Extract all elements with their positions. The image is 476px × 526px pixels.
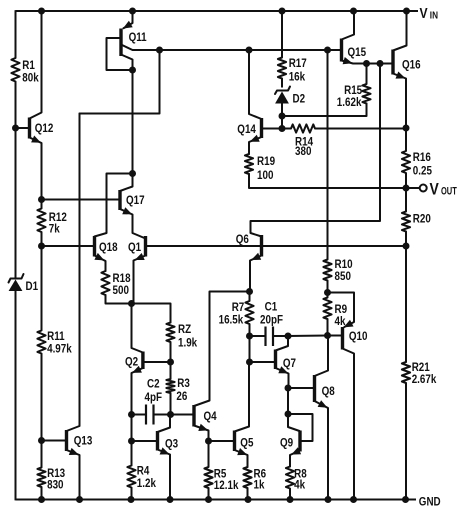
node Q3 collector junction <box>167 411 174 418</box>
wire R17 top lead <box>281 11 283 58</box>
svg-text:R4: R4 <box>137 465 150 478</box>
node junction x380 y63 <box>377 60 384 67</box>
resistor R1 <box>11 58 19 82</box>
node Q6 emitter junction <box>246 288 253 295</box>
label R15 value <box>337 84 362 109</box>
wire R20 top lead <box>405 188 407 212</box>
svg-text:D2: D2 <box>293 93 306 106</box>
resistor R21 <box>402 362 410 383</box>
resistor R6 <box>243 467 251 488</box>
node GND junction R6 <box>245 496 252 503</box>
wire R19 bottom to VOUT node <box>249 174 406 188</box>
wire VIN top rail <box>16 10 419 12</box>
label Q16 <box>402 59 421 72</box>
wire Q3 emitter <box>158 450 171 500</box>
wire R4 top lead <box>131 441 133 466</box>
svg-text:R16: R16 <box>413 151 431 164</box>
wire Q3 base line <box>132 440 158 442</box>
wire Q5 emitter <box>235 450 248 467</box>
transistor Q2 <box>141 352 144 370</box>
node Q18 base junction <box>38 243 45 250</box>
arrow Q16 emitter <box>396 72 406 79</box>
wire Q6 emitter <box>250 256 262 292</box>
svg-text:Q13: Q13 <box>74 435 93 448</box>
wire VOUT stub <box>406 187 420 189</box>
node feedback junction <box>403 243 410 250</box>
resistor R16 <box>402 151 410 173</box>
node Q2 base junction <box>167 359 174 366</box>
svg-text:850: 850 <box>335 270 351 283</box>
wire Q12 collector <box>30 11 42 119</box>
wire Q8 base line <box>288 387 315 389</box>
node VOUT junction <box>403 185 410 192</box>
wire Q15 emitter to Q16 base <box>367 63 394 65</box>
svg-text:4pF: 4pF <box>145 391 163 404</box>
label R14 value <box>295 136 314 159</box>
wire Q7 emitter <box>276 368 289 388</box>
svg-text:R3: R3 <box>177 377 190 390</box>
wire Q14 emitter <box>249 137 262 154</box>
label R19 value <box>257 155 275 182</box>
node top rail junction Q16 <box>403 8 410 15</box>
label R4 value <box>137 465 157 491</box>
transistor Q15 <box>340 39 343 62</box>
svg-text:GND: GND <box>419 496 441 509</box>
svg-text:R7: R7 <box>232 301 245 314</box>
wire Q13 collector <box>67 114 80 432</box>
svg-text:1k: 1k <box>254 479 266 492</box>
node R16 top junction <box>403 125 410 132</box>
resistor R3 <box>166 379 174 393</box>
wire D1 to GND rail <box>15 291 17 500</box>
label RZ value <box>178 323 198 350</box>
diode D2 zener <box>275 87 290 129</box>
node Q3 base junction <box>128 438 135 445</box>
wire Q9 collector <box>288 414 300 431</box>
wire Q2 collector <box>132 304 143 353</box>
svg-text:Q12: Q12 <box>35 122 54 135</box>
label Q13 <box>74 435 93 448</box>
label R3 value <box>176 377 189 403</box>
wire R7 bottom lead <box>249 324 251 336</box>
node Q9 base tie junction <box>285 411 292 418</box>
wire Q18 base line <box>42 245 95 247</box>
node junction y50 x159 <box>156 47 163 54</box>
node Q17 collector junction <box>129 170 136 177</box>
wire Q2 emitter <box>132 368 143 415</box>
transistor Q4 <box>192 405 195 427</box>
label R21 value <box>412 361 437 386</box>
arrow Q12 emitter <box>31 136 41 143</box>
label R1 value <box>22 59 39 85</box>
wire R14 left lead <box>282 128 291 130</box>
wire Q2 base <box>143 361 171 363</box>
arrow Q7 emitter <box>278 366 288 373</box>
node Q13 base junction <box>38 437 45 444</box>
wire Q14 collector <box>249 50 262 119</box>
transistor Q18 <box>93 236 96 257</box>
transistor Q11 <box>119 29 122 57</box>
svg-text:4k: 4k <box>335 315 347 328</box>
wire Q12 base node to D1 <box>15 128 17 272</box>
wire Q11 emitter <box>124 11 133 28</box>
node D2 junction to R15 line <box>279 113 286 120</box>
wire R14 right lead <box>315 128 406 130</box>
wire C1 left lead <box>250 335 266 337</box>
svg-text:Q14: Q14 <box>237 123 256 136</box>
wire Q7 base line <box>250 361 276 363</box>
svg-text:OUT: OUT <box>441 184 457 197</box>
node Q12 base junction <box>12 125 19 132</box>
wire R18 bottom <box>106 295 132 304</box>
label Q2 <box>125 356 138 369</box>
label Q17 <box>126 194 145 207</box>
label R12 value <box>49 211 67 236</box>
wire RZ top line <box>132 304 171 323</box>
resistor R7 <box>245 301 253 324</box>
svg-text:Q15: Q15 <box>348 46 367 59</box>
wire Q16 base node down to Q6 collector line <box>251 64 381 237</box>
resistor R8 <box>286 467 294 489</box>
arrow Q2 emitter <box>132 366 142 373</box>
wire R10 bottom lead <box>327 281 329 293</box>
node junction y50 x327 <box>324 47 331 54</box>
wire D2 node to R15 bottom <box>282 115 367 117</box>
arrow Q14 emitter <box>250 135 260 142</box>
resistor R4 <box>127 466 135 488</box>
svg-text:Q9: Q9 <box>280 437 293 450</box>
wire GND bottom rail <box>16 499 417 501</box>
svg-text:0.25: 0.25 <box>413 165 432 178</box>
svg-text:1.9k: 1.9k <box>178 337 198 350</box>
wire Q14 base line <box>263 128 282 130</box>
svg-text:V: V <box>430 180 440 199</box>
wire R15 bottom lead <box>366 104 368 117</box>
label Q7 <box>283 357 296 370</box>
wire Q4 emitter <box>194 426 209 442</box>
wire R5 bottom lead <box>208 488 210 500</box>
wire Q11 collector 1 <box>121 45 342 51</box>
transistor Q17 <box>118 190 121 210</box>
svg-text:16k: 16k <box>289 71 306 84</box>
node GND junction R5 <box>205 496 212 503</box>
node GND label <box>419 496 441 509</box>
node top rail junction R17 <box>279 8 286 15</box>
label Q4 <box>204 410 218 423</box>
svg-text:1.62k: 1.62k <box>337 96 362 109</box>
wire Q11 collector to Q17 node <box>132 70 134 174</box>
transistor Q14 <box>260 118 263 138</box>
node GND junction Q3 <box>167 496 174 503</box>
arrow Q9 emitter <box>291 447 301 454</box>
arrow Q17 emitter <box>122 207 132 214</box>
wire Q10 base line <box>328 335 343 337</box>
wire R4 bottom lead <box>131 488 133 500</box>
wire Q15 collector <box>342 11 355 40</box>
node Q1 emitter junction <box>128 300 135 307</box>
node GND junction R4 <box>128 496 135 503</box>
label R7 value <box>219 301 245 327</box>
wire Q18 emitter <box>95 256 106 272</box>
node C2 left junction <box>128 411 135 418</box>
wire R11 to Q13 base node <box>41 354 43 441</box>
resistor R11 <box>37 331 45 354</box>
wire Q9 base tie box <box>288 414 313 441</box>
node C1 left junction <box>246 333 253 340</box>
wire Q17 collector <box>120 174 133 192</box>
label Q15 <box>348 46 367 59</box>
label Q1 <box>128 241 141 254</box>
arrow Q13 emitter <box>69 448 79 455</box>
wire Q4 collector <box>194 292 250 407</box>
wire Q17 base line <box>42 199 121 201</box>
svg-text:Q16: Q16 <box>402 59 421 72</box>
resistor R12 <box>37 209 45 233</box>
transistor Q7 <box>274 350 277 370</box>
label C2 value <box>145 378 163 405</box>
svg-text:26: 26 <box>176 390 187 403</box>
label Q12 <box>35 122 54 135</box>
wire Q7 collector <box>276 336 289 351</box>
arrow Q10 emitter (PNP) <box>344 320 354 328</box>
transistor Q8 <box>313 375 316 402</box>
wire Q12 emitter <box>30 138 42 200</box>
resistor R17 <box>278 58 286 79</box>
label R16 value <box>413 151 432 178</box>
wire R5 top lead <box>208 441 210 467</box>
diode D1 zener <box>9 272 24 300</box>
node GND junction R13 <box>38 496 45 503</box>
wire R9 bottom lead <box>327 319 329 336</box>
svg-text:2.67k: 2.67k <box>412 373 437 386</box>
wire Q15 base column <box>327 50 329 260</box>
svg-text:380: 380 <box>295 145 311 158</box>
wire Q16 collector <box>393 11 407 51</box>
svg-text:7k: 7k <box>49 223 61 236</box>
resistor R13 <box>37 468 45 488</box>
arrow Q8 emitter <box>318 400 328 408</box>
wire Q3 collector <box>158 415 171 433</box>
label R6 value <box>254 468 267 492</box>
wire Q13 emitter <box>67 450 80 500</box>
resistor R5 <box>204 467 212 488</box>
wire Q17 collector tie <box>95 174 133 237</box>
label R10 value <box>335 258 353 283</box>
label Q10 <box>349 330 368 343</box>
node GND junction Q13 emitter <box>76 496 83 503</box>
label Q14 <box>237 123 256 136</box>
arrow Q3 emitter <box>160 447 170 454</box>
svg-text:1.2k: 1.2k <box>137 477 157 490</box>
transistor Q5 <box>233 431 236 452</box>
resistor R14 <box>291 124 315 132</box>
wire Q17 emitter <box>120 209 146 239</box>
transistor Q10 <box>341 327 344 350</box>
node GND junction Q8 <box>325 496 332 503</box>
node Q11 collector-base junction <box>129 67 136 74</box>
arrow Q5 emitter <box>237 448 247 455</box>
label Q3 <box>165 438 178 451</box>
svg-text:R1: R1 <box>22 59 35 72</box>
wire Q2 emitter to Q3 base node <box>131 415 133 442</box>
wire Q15 emitter <box>342 61 367 64</box>
capacitor C2 <box>146 405 154 425</box>
label Q5 <box>240 437 253 450</box>
svg-text:R19: R19 <box>257 155 275 168</box>
arrow Q15 emitter <box>343 57 353 64</box>
svg-text:Q7: Q7 <box>283 357 296 370</box>
node GND junction Q10 <box>350 496 357 503</box>
wire feedback line to Q6 base <box>262 245 407 247</box>
svg-text:IN: IN <box>430 10 438 21</box>
svg-text:C1: C1 <box>265 301 278 314</box>
arrow Q11 emitter (PNP) <box>123 21 133 29</box>
wire Q13 base line <box>42 440 67 442</box>
wire Q8 collector <box>315 336 329 377</box>
svg-text:100: 100 <box>257 169 273 182</box>
svg-text:Q4: Q4 <box>204 410 218 423</box>
wire Q9 emitter <box>290 451 300 467</box>
svg-text:V: V <box>420 5 428 21</box>
wire R1 bottom to Q12 base node <box>15 82 17 129</box>
resistor R18 <box>101 271 109 295</box>
label VOUT <box>430 180 457 199</box>
wire R12 top lead <box>41 200 43 209</box>
label R20 <box>413 213 431 226</box>
label R13 value <box>47 467 65 492</box>
svg-text:4.97k: 4.97k <box>47 343 72 356</box>
svg-text:R20: R20 <box>413 213 431 226</box>
wire Q5 base line <box>209 440 235 442</box>
svg-text:Q11: Q11 <box>129 31 147 44</box>
label Q18 <box>99 241 118 254</box>
wire Q5 collector <box>235 361 250 432</box>
label C1 value <box>260 301 283 327</box>
wire Q7 emitter to Q9 <box>287 388 289 414</box>
label R9 value <box>335 303 348 328</box>
node GND junction R8 <box>287 496 294 503</box>
wire C1 to R9 node <box>288 335 328 338</box>
resistor R15 <box>362 84 370 104</box>
wire Q16 emitter <box>393 74 406 129</box>
label D1 <box>26 280 39 293</box>
label D2 <box>293 93 306 106</box>
wire Q11 collector 2 <box>121 55 133 71</box>
svg-text:Q17: Q17 <box>126 194 145 207</box>
svg-text:RZ: RZ <box>178 323 191 336</box>
wire R3 top lead <box>170 362 172 379</box>
wire R20 bottom lead <box>405 232 407 247</box>
resistor R10 <box>323 260 331 281</box>
wire Q1 emitter <box>134 256 146 304</box>
node top rail junction A (Q12 collector) <box>38 8 45 15</box>
wire C2 right lead <box>154 414 171 416</box>
wire RZ bottom lead <box>170 342 172 362</box>
wire Q4 base line <box>171 414 195 416</box>
svg-text:R11: R11 <box>47 330 65 343</box>
svg-text:Q8: Q8 <box>322 385 335 398</box>
transistor Q13 <box>65 430 68 451</box>
node GND junction R21 <box>402 496 409 503</box>
wire R21 bottom lead <box>405 383 407 500</box>
label R8 value <box>294 468 307 492</box>
node Q15 emitter junction R15 <box>363 60 370 67</box>
wire R15 top lead <box>366 64 368 85</box>
wire C2 left lead <box>132 414 147 416</box>
wire R6 bottom lead <box>247 488 249 500</box>
wire R17 to D2 <box>281 79 283 88</box>
arrow Q1 emitter <box>135 253 145 260</box>
wire Q1 base line <box>146 245 262 247</box>
svg-text:80k: 80k <box>22 72 39 85</box>
svg-text:Q18: Q18 <box>99 241 118 254</box>
wire R16 bottom lead <box>405 173 407 188</box>
svg-text:Q2: Q2 <box>125 356 138 369</box>
svg-text:R17: R17 <box>289 57 307 70</box>
transistor Q6 <box>260 235 263 257</box>
svg-text:16.5k: 16.5k <box>219 314 244 327</box>
wire R8 bottom lead <box>289 489 291 500</box>
svg-text:12.1k: 12.1k <box>214 479 239 492</box>
wire C1 right lead <box>273 335 288 337</box>
label Q8 <box>322 385 335 398</box>
node R9 top junction <box>324 289 331 296</box>
wire R13 bottom lead <box>41 487 43 500</box>
wire Q13 collector to Q11 right collector <box>80 50 160 114</box>
svg-text:Q1: Q1 <box>128 241 141 254</box>
label R11 value <box>47 330 72 356</box>
arrow Q18 emitter <box>94 253 104 261</box>
node Q14 base junction <box>279 125 286 132</box>
node VIN label <box>420 5 438 21</box>
wire Q10 emitter tie <box>328 293 355 328</box>
resistor RZ <box>166 323 174 343</box>
node junction y50 x249 <box>246 47 253 54</box>
wire R7 top lead <box>249 292 251 302</box>
wire Q12 base <box>16 127 30 129</box>
transistor Q3 <box>156 431 159 451</box>
arrow Q4 emitter <box>198 424 208 431</box>
wire Q8 emitter <box>315 401 329 500</box>
svg-text:500: 500 <box>113 284 129 297</box>
label Q11 <box>129 31 147 44</box>
svg-text:Q10: Q10 <box>349 330 368 343</box>
resistor R9 <box>323 298 331 320</box>
transistor Q1 <box>144 236 147 257</box>
transistor Q16 <box>391 50 394 75</box>
wire Q10 collector <box>343 349 355 500</box>
transistor Q9 <box>298 431 301 452</box>
svg-text:Q3: Q3 <box>165 438 178 451</box>
svg-text:830: 830 <box>47 479 63 492</box>
wire R3 bottom lead <box>170 393 172 415</box>
svg-text:D1: D1 <box>26 280 39 293</box>
svg-text:Q5: Q5 <box>240 437 253 450</box>
wire R9 top lead <box>327 293 329 298</box>
label Q6 <box>236 233 249 246</box>
wire Q11 base tie box <box>107 38 133 70</box>
wire R12 bottom lead <box>41 232 43 246</box>
wire left rail upper (VIN to R1) <box>15 10 17 58</box>
node top rail junction Q15 <box>350 8 357 15</box>
wire R12 to R11 <box>41 246 43 331</box>
resistor R20 <box>402 212 410 232</box>
wire R21 top lead <box>405 246 407 362</box>
label R18 value <box>113 272 131 297</box>
node R12 top junction <box>38 196 45 203</box>
node top rail junction Q11 emitter <box>129 8 136 15</box>
node Q10 base junction <box>324 332 331 339</box>
